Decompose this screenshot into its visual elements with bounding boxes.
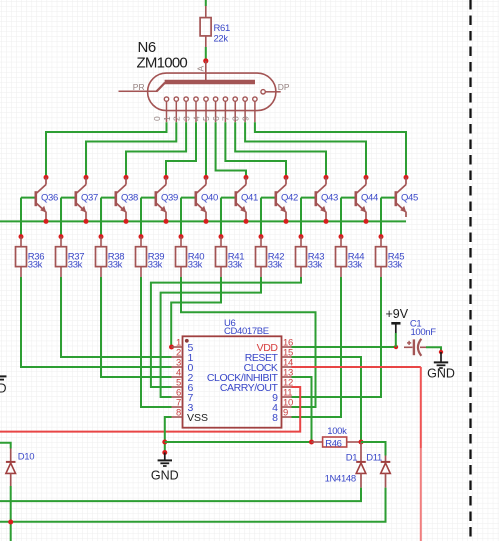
svg-text:D: D — [0, 382, 7, 396]
junction Q36 emitter on bus — [44, 219, 49, 224]
junction Q38 collector — [124, 175, 129, 180]
wire U6 VSS to GND — [165, 417, 172, 453]
svg-text:33k: 33k — [228, 259, 243, 270]
svg-text:D1: D1 — [346, 453, 358, 464]
wire base column to R43 — [300, 198, 302, 237]
svg-text:33k: 33k — [28, 259, 43, 270]
svg-text:33k: 33k — [308, 259, 323, 270]
power +9V — [386, 307, 409, 333]
wire base column to R40 — [180, 198, 182, 237]
tube pin 0 — [152, 97, 169, 122]
U6 pin 5 stub — [172, 378, 194, 394]
resistor R38 33k — [96, 237, 125, 277]
junction +9V node — [394, 345, 398, 349]
U6 pin 15 stub — [245, 348, 293, 364]
svg-text:33k: 33k — [268, 259, 283, 270]
junction R39 top — [139, 234, 144, 239]
wire base column to R37 — [60, 198, 62, 237]
junction Q42 collector — [284, 175, 289, 180]
wire U6 pin 13 to gnd rail — [292, 377, 312, 442]
transistor Q45 — [396, 177, 418, 217]
junction Q43 collector — [324, 175, 329, 180]
junction C1 gnd — [439, 350, 443, 354]
wire Q42 base — [261, 197, 275, 199]
svg-text:2: 2 — [172, 116, 182, 121]
U6 pin 11 stub — [272, 388, 292, 404]
svg-text:Q40: Q40 — [201, 193, 218, 204]
wire R37 to U6 pin 2 — [61, 277, 172, 357]
wire base column to R41 — [220, 198, 222, 237]
junction Q44 collector — [364, 175, 369, 180]
wire Q43 base — [301, 197, 315, 199]
wire D10 top feed — [0, 443, 11, 449]
svg-text:8: 8 — [176, 408, 181, 419]
U6 pin 16 stub — [257, 338, 293, 354]
junction Q39 collector — [164, 175, 169, 180]
svg-text:Q37: Q37 — [81, 193, 98, 204]
junction Q37 collector — [84, 175, 89, 180]
U6 pin 4 stub — [172, 368, 194, 384]
svg-text:N6: N6 — [138, 39, 156, 56]
wire R38 to U6 pin 4 — [101, 277, 172, 377]
svg-text:PR: PR — [133, 82, 145, 92]
svg-text:Q38: Q38 — [121, 193, 138, 204]
wire R45 to U6 pin 11 — [292, 277, 382, 397]
wire R39 to U6 pin 7 — [141, 277, 172, 407]
resistor R40 33k — [176, 237, 205, 277]
wire base column to R36 — [20, 198, 22, 237]
junction R46 right — [359, 440, 364, 445]
svg-text:33k: 33k — [348, 259, 363, 270]
junction Q40 collector — [204, 175, 209, 180]
wire Q44 base — [341, 197, 355, 199]
wire Q38 base — [101, 197, 115, 199]
pin PR — [119, 82, 158, 92]
junction Q41 collector — [244, 175, 249, 180]
junction VSS gnd — [162, 450, 167, 455]
ground GND near C1 — [427, 352, 455, 381]
svg-text:33k: 33k — [68, 259, 83, 270]
wire R46 node to D11 — [361, 442, 386, 456]
svg-text:+9V: +9V — [386, 307, 409, 321]
wire gnd rail to R46 — [165, 441, 312, 443]
U6 pin 14 stub — [244, 358, 293, 374]
nixie tube N6 body — [148, 61, 276, 111]
junction Q36 collector — [44, 175, 49, 180]
diode D10 — [6, 449, 34, 487]
svg-text:Q36: Q36 — [41, 193, 58, 204]
wire U6 CARRY/OUT pin 12 — [0, 387, 300, 432]
wire R44 to U6 pin 9 — [292, 277, 342, 417]
junction R46 left — [309, 440, 314, 445]
wire U6 CLOCK pin 14 — [292, 366, 421, 368]
junction R37 top — [59, 234, 64, 239]
junction R42 top — [259, 234, 264, 239]
wire D11 to rail — [0, 488, 386, 522]
junction R36 top — [19, 234, 24, 239]
U6 pin 8 stub — [172, 408, 209, 424]
svg-text:8: 8 — [272, 412, 278, 424]
wire R43 to U6 pin 5 — [151, 277, 301, 387]
wire U6 RESET pin 15 to R46 right — [292, 357, 362, 442]
svg-text:22k: 22k — [214, 34, 229, 45]
wire R42 to U6 pin 6 — [161, 277, 261, 397]
junction VSS rail — [162, 440, 167, 445]
svg-text:D11: D11 — [366, 453, 382, 464]
wire emitter ground bus — [0, 220, 406, 222]
tube pin 9 — [240, 97, 257, 122]
wire C1 to GND — [426, 347, 441, 352]
wire tube pin 7 to Q43 collector — [235, 122, 326, 177]
transistor Q41 — [236, 177, 258, 221]
diode D1 1N4148 — [325, 442, 366, 488]
wire tube pin 9 to Q45 collector — [255, 122, 406, 177]
svg-text:R46: R46 — [325, 438, 341, 449]
tube pin 6 — [211, 97, 228, 122]
svg-text:33k: 33k — [388, 259, 403, 270]
tube pin 4 — [192, 97, 209, 122]
svg-text:4: 4 — [192, 116, 202, 121]
wire R40 to U6 pin 10 — [181, 277, 316, 407]
junction Q45 collector — [404, 175, 409, 180]
junction Q44 emitter on bus — [364, 219, 369, 224]
junction U6 pin 1 — [169, 345, 174, 350]
tube pin 3 — [182, 97, 199, 122]
svg-text:Q42: Q42 — [281, 193, 298, 204]
junction Q40 emitter on bus — [204, 219, 209, 224]
svg-text:9: 9 — [240, 116, 250, 121]
wire R36 to U6 pin 3 — [21, 277, 172, 367]
svg-text:Q41: Q41 — [241, 193, 258, 204]
svg-text:R61: R61 — [214, 23, 230, 34]
junction R40 top — [179, 234, 184, 239]
wire Q37 base — [61, 197, 75, 199]
resistor R37 33k — [56, 237, 85, 277]
junction R44 top — [339, 234, 344, 239]
transistor Q43 — [316, 177, 338, 221]
pin DP — [261, 82, 290, 94]
resistor R44 33k — [336, 237, 365, 277]
junction Q41 emitter on bus — [244, 219, 249, 224]
svg-text:GND: GND — [427, 367, 455, 381]
tube pin 2 — [172, 97, 189, 122]
wire base column to R45 — [380, 198, 382, 237]
transistor Q44 — [356, 177, 378, 221]
svg-text:GND: GND — [151, 469, 179, 483]
capacitor C1 100nF — [404, 318, 436, 356]
junction Q43 emitter on bus — [324, 219, 329, 224]
junction R45 top — [379, 234, 384, 239]
ground partial at left edge — [0, 376, 7, 395]
resistor R46 100k — [312, 426, 362, 450]
junction Q37 emitter on bus — [84, 219, 89, 224]
wire tube pin 3 to Q39 collector — [166, 122, 196, 177]
resistor R45 33k — [376, 237, 405, 277]
transistor Q39 — [156, 177, 178, 221]
svg-text:A: A — [196, 66, 206, 72]
svg-text:33k: 33k — [188, 259, 203, 270]
wire tube pin 0 to Q36 collector — [46, 122, 167, 177]
svg-text:ZM1000: ZM1000 — [137, 55, 188, 72]
wire Q36 base — [21, 197, 35, 199]
resistor R61 — [200, 6, 230, 47]
resistor R36 33k — [16, 237, 45, 277]
svg-text:33k: 33k — [108, 259, 123, 270]
wire tube pin 8 to Q44 collector — [245, 122, 366, 177]
U6 pin 2 stub — [172, 348, 194, 364]
svg-text:1N4148: 1N4148 — [325, 474, 356, 485]
transistor Q37 — [76, 177, 98, 221]
wire Q41 base — [221, 197, 235, 199]
wire D10 down — [10, 486, 12, 541]
wire Q40 base — [181, 197, 195, 199]
transistor Q36 — [36, 177, 58, 221]
svg-text:8: 8 — [231, 116, 241, 121]
wire Q39 base — [141, 197, 155, 199]
sheet boundary dashed line — [469, 0, 471, 541]
wire U6 VDD to +9V node — [292, 346, 397, 348]
wire base column to R42 — [260, 198, 262, 237]
svg-text:VSS: VSS — [187, 412, 208, 424]
svg-text:CARRY/OUT: CARRY/OUT — [220, 382, 279, 394]
junction R38 top — [99, 234, 104, 239]
svg-text:Q44: Q44 — [361, 193, 378, 204]
svg-text:D10: D10 — [18, 452, 34, 463]
U6 pin 12 stub — [220, 378, 293, 394]
wire R61 to anode — [205, 47, 207, 59]
junction Q38 emitter on bus — [124, 219, 129, 224]
svg-text:DP: DP — [278, 82, 290, 92]
junction D10 rail — [8, 520, 13, 525]
svg-text:5: 5 — [201, 116, 211, 121]
tube pin 5 — [201, 97, 218, 122]
resistor R43 33k — [296, 237, 325, 277]
transistor Q40 — [196, 177, 218, 221]
wire tube pin 1 to Q37 collector — [86, 122, 176, 177]
svg-text:3: 3 — [182, 116, 192, 121]
svg-text:9: 9 — [283, 408, 288, 419]
wire Q45 base — [381, 197, 395, 199]
junction R43 top — [299, 234, 304, 239]
tube pin 1 — [162, 97, 179, 122]
wire R41 to U6 pin 1 — [171, 277, 221, 347]
svg-text:Q43: Q43 — [321, 193, 338, 204]
wire base column to R38 — [100, 198, 102, 237]
wire CLOCK vertical lower — [420, 448, 422, 541]
transistor Q42 — [276, 177, 298, 221]
wire +9V stub — [395, 333, 397, 347]
junction Q42 emitter on bus — [284, 219, 289, 224]
svg-text:Q45: Q45 — [401, 193, 418, 204]
resistor R39 33k — [136, 237, 165, 277]
op-amp U6 CD4017BE body — [183, 318, 282, 428]
tube pin 7 — [221, 97, 238, 122]
diode D11 — [366, 453, 390, 488]
U6 pin 13 stub — [207, 368, 293, 384]
ground GND near U6 — [151, 453, 179, 483]
resistor R41 33k — [216, 237, 245, 277]
junction Q39 emitter on bus — [164, 219, 169, 224]
wire tube pin 4 to Q40 collector — [205, 122, 207, 177]
wire base column to R39 — [140, 198, 142, 237]
svg-text:6: 6 — [211, 116, 221, 121]
U6 pin 10 stub — [272, 398, 293, 414]
wire top anode feed — [205, 0, 207, 6]
svg-text:33k: 33k — [148, 259, 163, 270]
svg-text:100nF: 100nF — [411, 327, 437, 338]
junction R41 top — [219, 234, 224, 239]
wire tube pin 6 to Q42 collector — [225, 122, 286, 177]
U6 pin 1 stub — [172, 338, 194, 354]
wire base column to R44 — [340, 198, 342, 237]
node A junction — [196, 58, 209, 71]
svg-text:100k: 100k — [327, 426, 347, 437]
U6 pin 9 stub — [272, 408, 291, 424]
U6 pin 7 stub — [172, 398, 194, 414]
transistor Q38 — [116, 177, 138, 221]
svg-text:1: 1 — [162, 116, 172, 121]
wire tube pin 2 to Q38 collector — [126, 122, 186, 177]
nixie tube N6 ZM1000 label — [137, 39, 188, 72]
wire tube pin 5 to Q41 collector — [216, 122, 246, 177]
U6 pin 6 stub — [172, 388, 194, 404]
tube pin 8 — [231, 97, 248, 122]
svg-text:0: 0 — [152, 116, 162, 121]
resistor R42 33k — [256, 237, 285, 277]
svg-text:Q39: Q39 — [161, 193, 178, 204]
U6 pin 3 stub — [172, 358, 194, 374]
svg-text:CD4017BE: CD4017BE — [224, 326, 269, 337]
wire D1 to output rail — [0, 488, 361, 502]
wire CLOCK vertical upper — [420, 367, 422, 448]
svg-text:7: 7 — [221, 116, 231, 121]
